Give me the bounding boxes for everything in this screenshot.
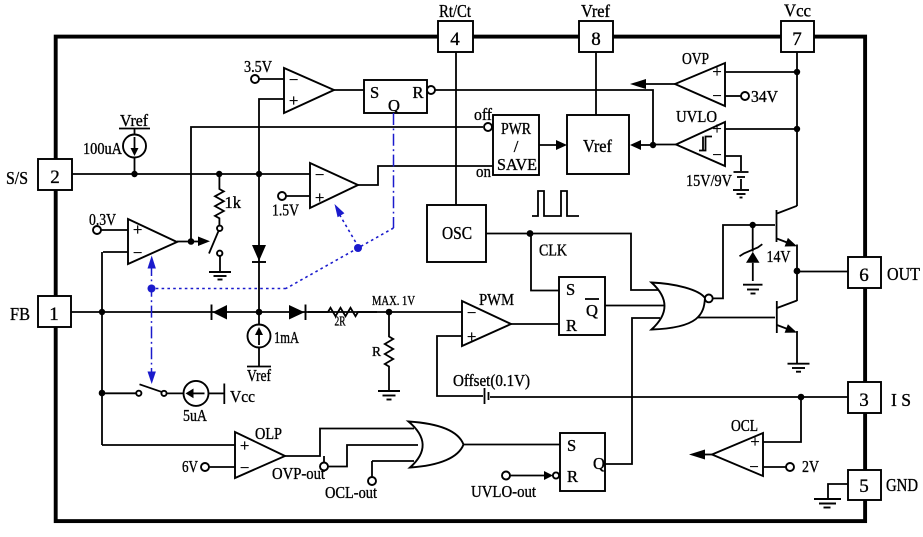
pin 7 Vcc [781,1,814,53]
svg-text:OCL-out: OCL-out [325,483,377,502]
wire blue control from latch Q [393,113,395,228]
wire PWM plus input with offset battery [437,336,483,396]
svg-text:+: + [315,188,324,207]
svg-text:+: + [467,327,476,346]
svg-text:6V: 6V [182,457,198,476]
wire OLP out to OR gate [285,429,414,457]
svg-text:−: − [315,165,324,184]
comparator OCL [712,416,763,476]
switch soft-start discharge [209,226,222,271]
pin 5 GND [848,470,918,500]
wire S/S diode branch [258,174,260,312]
svg-text:OSC: OSC [442,223,472,243]
wire UVLO plus to Vcc [725,128,797,130]
svg-text:Vref: Vref [247,366,271,385]
svg-text:OVP-out: OVP-out [272,464,325,483]
comparator UVLO [676,107,725,166]
svg-text:MAX. 1V: MAX. 1V [372,293,415,308]
resistor 1k [215,174,242,226]
wire blue arrow to 1.5V comparator [335,204,359,247]
svg-text:R: R [567,467,578,486]
svg-text:−: − [749,457,758,476]
block PWR/SAVE [474,105,539,181]
latch PWM S-R [559,277,605,335]
current source 5uA [183,381,255,425]
svg-text:PWM: PWM [479,290,514,309]
wire 1.5V comp out to PWR/SAVE on [358,166,493,185]
svg-text:2V: 2V [802,457,819,476]
comparator 0.3V [89,210,177,264]
svg-text:R: R [566,316,577,335]
pin 3 IS [848,382,911,413]
node UVLO-Vref junction [630,140,656,150]
node MAX 1V junction [386,309,393,316]
svg-text:Vref: Vref [583,136,612,156]
comparator 1.5V [272,163,358,220]
terminal 34V [725,87,778,106]
wire 3.5V plus input from S/S [259,99,284,174]
wire NOR body to lower transistor base [697,317,775,319]
wire OSC CLK [486,234,658,291]
svg-text:UVLO-out: UVLO-out [471,482,536,501]
node 5uA branch junction [99,390,106,397]
svg-text:Vcc: Vcc [230,387,255,406]
comparator OVP [675,49,725,106]
current source 100uA [83,111,150,174]
node S/S-1k junction [216,171,222,177]
terminal OVP-out [272,456,328,483]
svg-text:PWR: PWR [501,119,531,138]
wire OVP plus to Vcc [725,71,797,73]
svg-text:Vcc: Vcc [784,1,811,21]
comparator PWM [462,290,514,346]
svg-text:−: − [289,70,298,89]
node S/S-100uA junction [131,171,137,177]
node IS junction [798,394,805,401]
node diode center junction [256,309,263,316]
diode left (to FB) [212,305,228,321]
svg-text:+: + [712,62,721,81]
battery 15V/9V [686,156,749,190]
wire OCL plus from IS [763,397,801,442]
svg-text:14V: 14V [767,247,791,266]
svg-text:−: − [133,243,142,262]
svg-text:+: + [133,220,142,239]
svg-text:0.3V: 0.3V [89,210,116,229]
wire latch Qbar to NOR [605,305,668,307]
node Vcc-UVLO junction [794,126,800,132]
wire OLP plus input [102,444,235,446]
terminal UVLO-out [471,471,553,501]
pin 6 OUT [848,257,920,288]
transistor lower NPN [777,271,797,363]
svg-text:5uA: 5uA [183,406,207,425]
svg-text:4: 4 [450,29,460,50]
ground at pin5 [814,484,848,508]
block Vref regulator [567,115,629,174]
ground below switch [209,272,231,280]
svg-text:OUT: OUT [887,264,920,284]
svg-text:−: − [712,145,721,164]
wire pin8 to Vref block [595,52,597,115]
svg-text:S: S [567,436,576,455]
svg-text:SAVE: SAVE [497,155,537,174]
svg-text:OLP: OLP [255,424,282,443]
current source 1mA [247,312,299,385]
wire FB line [71,311,462,313]
svg-text:GND: GND [886,475,918,495]
svg-text:UVLO: UVLO [676,107,717,126]
gate OR fault [409,422,464,468]
wire PWR/SAVE to Vref with arrow [539,140,567,150]
wire IS line to pin 3 [490,396,848,398]
clock pulse waveform [532,191,579,216]
svg-text:Vref: Vref [120,111,148,130]
terminal 6V [182,457,235,476]
svg-text:6: 6 [859,265,869,286]
transistor upper NPN [777,206,798,271]
wire blue double arrow [148,256,156,385]
pin 4 Rt/Ct [438,1,473,52]
wire latch R to UVLO node [435,90,653,145]
svg-text:OCL: OCL [731,416,758,435]
ground below battery [733,190,749,198]
svg-text:off: off [474,105,492,124]
wire NOR out to upper transistor base [713,225,775,298]
svg-text:S: S [566,280,575,299]
node blue B [148,285,156,293]
svg-text:15V/9V: 15V/9V [686,171,732,190]
wire UVLO out to Vref node [653,144,676,146]
wire Vcc rail from pin7 [796,52,798,206]
svg-text:on: on [476,162,491,181]
svg-text:R: R [372,344,381,359]
resistor 2R [308,308,377,329]
svg-text:1k: 1k [225,193,242,212]
zener 14V [740,225,791,294]
svg-text:I S: I S [891,390,911,410]
svg-text:+: + [240,436,249,455]
svg-text:2: 2 [50,167,60,188]
svg-text:Q: Q [586,301,598,320]
svg-text:Offset(0.1V): Offset(0.1V) [453,371,530,390]
terminal 2V [763,457,819,476]
pin 8 Vref [579,1,613,52]
svg-text:/: / [514,137,519,156]
svg-text:OVP: OVP [682,49,709,68]
svg-text:−: − [712,86,721,105]
wire pin4 to OSC [455,52,457,205]
comparator OLP [235,424,285,478]
svg-text:S: S [370,83,379,102]
wire to pin 6 [797,271,848,273]
wire CLK to PWM latch S [531,234,559,291]
node S/S-diode junction [256,171,262,177]
svg-text:Vref: Vref [581,1,610,21]
node Vcc-OVP junction [794,69,800,75]
wire 3.5V comp out to latch S [334,89,364,91]
node zener junction [750,222,756,228]
switch 5uA [102,384,184,396]
svg-text:2R: 2R [335,314,346,329]
wire OR latch Q to NOR [605,318,660,464]
ground below lower transistor [788,364,810,372]
wire PWM out to latch R [511,323,559,325]
svg-text:1mA: 1mA [274,328,299,347]
diode right (from FB) [289,305,306,321]
svg-text:R: R [412,83,423,102]
latch fault S-R [553,433,605,491]
svg-text:FB: FB [10,304,30,324]
wire OCL output arrow [689,450,712,460]
svg-text:100uA: 100uA [83,139,122,158]
svg-text:CLK: CLK [539,241,567,260]
pin 1 FB [10,296,71,327]
svg-text:8: 8 [591,29,601,50]
wire blue horizontal to node B [152,288,287,290]
IC outline border [56,37,865,521]
wire 0.3V output to switch arrow [177,237,210,247]
resistor R to ground [372,312,400,400]
latch S-R (error latch) [364,80,435,115]
node blue A [354,244,362,252]
diode to FB [252,245,266,262]
wire blue diagonal to node [286,228,394,289]
comparator 3.5V [244,57,334,113]
svg-text:3.5V: 3.5V [244,57,272,76]
wire S/S line [72,173,310,175]
svg-text:Q: Q [388,96,400,115]
battery Offset(0.1V) [453,371,530,404]
node CLK junction [527,230,534,237]
terminal OCL-out [325,461,377,502]
svg-text:−: − [467,303,476,322]
wire FB vertical branch [101,252,103,445]
svg-text:34V: 34V [751,87,778,106]
wire 0.3V output up to PWR/SAVE off [191,127,483,242]
wire OR out to latch S [464,444,561,446]
svg-text:3: 3 [859,390,869,411]
svg-text:1: 1 [49,304,59,325]
gate NOR output driver [652,283,713,330]
wire OVP output arrow [630,79,675,89]
wire OVP-out to OR gate [328,445,418,467]
svg-text:Rt/Ct: Rt/Ct [439,1,471,21]
svg-text:7: 7 [792,29,802,50]
node OUT junction [794,268,801,275]
svg-text:+: + [289,91,298,110]
svg-text:5: 5 [859,476,869,497]
pin 2 S/S [6,159,72,190]
block OSC [427,205,486,262]
node FB junction [99,309,105,315]
wire OCL-out to OR gate [372,460,414,462]
svg-text:S/S: S/S [6,168,28,188]
svg-text:1.5V: 1.5V [272,201,299,220]
svg-text:−: − [240,458,249,477]
svg-text:Q: Q [593,454,605,473]
